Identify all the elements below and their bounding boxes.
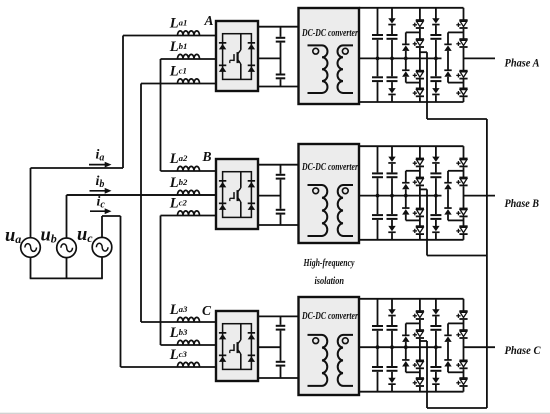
svg-text:isolation: isolation <box>315 276 345 287</box>
svg-text:DC-DC converter: DC-DC converter <box>301 161 358 173</box>
svg-text:C: C <box>202 303 212 318</box>
svg-text:DC-DC converter: DC-DC converter <box>301 27 358 39</box>
svg-text:A: A <box>204 13 214 28</box>
svg-text:DC-DC converter: DC-DC converter <box>301 310 358 322</box>
svg-text:Phase C: Phase C <box>505 343 542 357</box>
svg-text:High-frequency: High-frequency <box>303 258 355 269</box>
svg-text:Phase B: Phase B <box>505 196 540 210</box>
svg-text:Phase A: Phase A <box>505 56 540 70</box>
svg-text:B: B <box>202 149 212 164</box>
